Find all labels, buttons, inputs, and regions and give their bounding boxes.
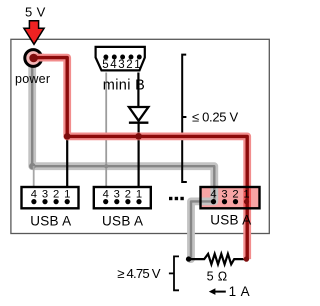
svg-text:mini B: mini B [103, 77, 145, 93]
ellipsis dots [169, 197, 184, 200]
USB A port 2 [94, 187, 151, 208]
svg-text:1: 1 [243, 188, 249, 200]
svg-text:2: 2 [126, 59, 132, 71]
measurement bracket 4.75V [174, 256, 179, 290]
5V arrow [24, 21, 44, 45]
svg-text:≥ 4.75 V: ≥ 4.75 V [117, 266, 160, 281]
svg-text:4: 4 [110, 59, 117, 71]
svg-text:2: 2 [125, 188, 131, 200]
svg-text:5 Ω: 5 Ω [207, 270, 228, 284]
USB A 1 pin dots [31, 199, 36, 204]
wire mini B pin 1 to diode anode [137, 73, 139, 108]
svg-text:USB A: USB A [102, 213, 143, 228]
USB A port 3 border [201, 187, 260, 208]
ground wire core [32, 62, 214, 259]
junction node diode to red bus [135, 133, 142, 140]
svg-text:3: 3 [221, 188, 227, 200]
USB A 3 pin dots [211, 199, 216, 204]
USB A port 1 [22, 187, 79, 208]
svg-text:5: 5 [102, 59, 108, 71]
wire diode cathode to USB A 2 pin 1 [138, 123, 140, 188]
svg-text:power: power [15, 72, 50, 86]
mini B connector [96, 47, 145, 71]
svg-text:≤ 0.25 V: ≤ 0.25 V [192, 110, 239, 125]
svg-text:4: 4 [103, 188, 109, 200]
wire mini B pin 5 ground to USB A 2 pin 4 [105, 73, 107, 188]
svg-text:3: 3 [42, 188, 48, 200]
svg-text:2: 2 [232, 188, 238, 200]
resistor R1 5 ohm [186, 254, 246, 264]
saturated highlight over USB A 3 fill [243, 188, 251, 208]
wire red bus corner to USB A 1 pin 1 [66, 136, 68, 187]
5V supply wire casing (highlighted red path) [33, 58, 247, 260]
hub enclosure frame [11, 39, 269, 233]
junction node mini B ground at gray bus [104, 164, 108, 168]
svg-text:USB A: USB A [210, 213, 251, 228]
svg-text:1: 1 [64, 188, 70, 200]
power jack connector [25, 50, 44, 67]
USB A port 3 highlight fill [201, 187, 260, 208]
svg-text:1: 1 [136, 188, 142, 200]
svg-text:4: 4 [210, 188, 216, 200]
diode D1 [129, 107, 149, 123]
svg-text:4: 4 [31, 188, 37, 200]
svg-text:1: 1 [134, 59, 140, 71]
junction node at resistor right [244, 256, 249, 261]
svg-text:3: 3 [118, 59, 124, 71]
junction node at red corner [64, 133, 71, 140]
svg-text:5 V: 5 V [25, 5, 46, 20]
svg-text:3: 3 [114, 188, 120, 200]
measurement bracket 0.25V [182, 55, 187, 182]
svg-text:1 A: 1 A [229, 284, 250, 299]
svg-text:USB A: USB A [30, 213, 71, 228]
svg-text:2: 2 [53, 188, 59, 200]
wire thin ground drop to USB A 1 pin 4 [33, 166, 35, 188]
current arrow 1A [209, 288, 226, 295]
junction node gray bus corner [29, 163, 36, 170]
USB A 2 pin dots [103, 199, 108, 204]
mini B pin dots [103, 55, 108, 60]
ground wire casing from power jack to gray bus [32, 62, 214, 259]
5V supply wire core [33, 58, 247, 260]
